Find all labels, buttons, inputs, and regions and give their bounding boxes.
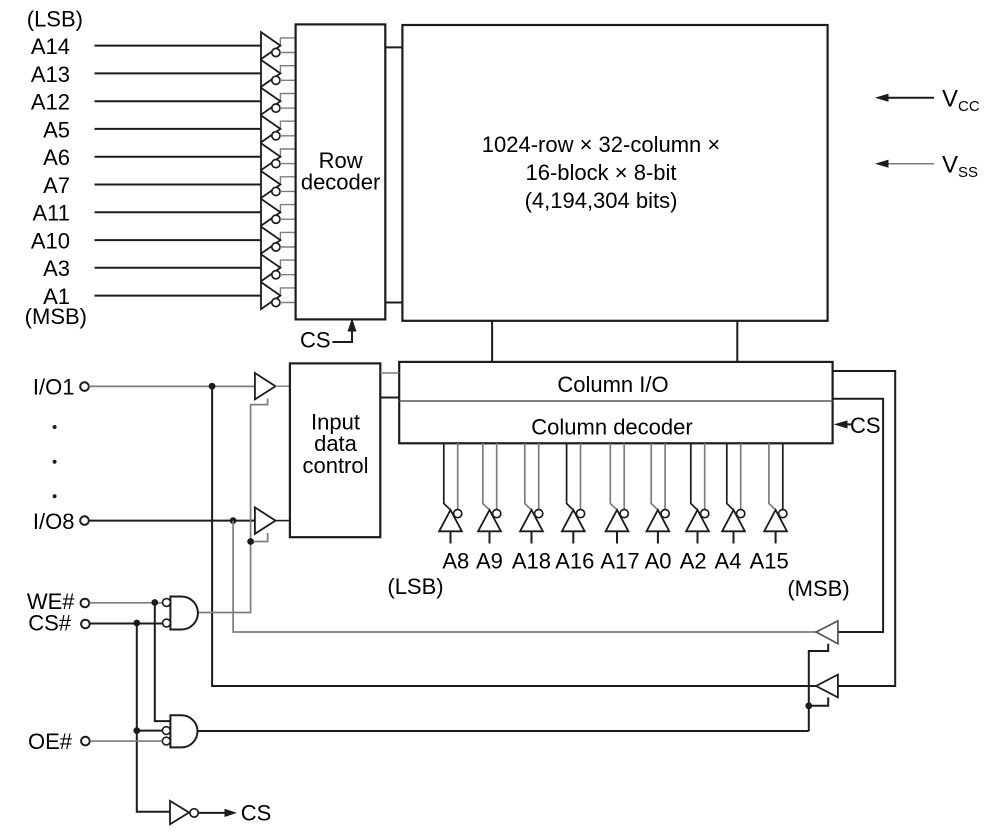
svg-text:CS#: CS# bbox=[28, 610, 72, 635]
input buffer I/O1 bbox=[255, 373, 276, 399]
address buffer A13 complement output wire bbox=[280, 79, 296, 81]
node OE# label bbox=[28, 729, 73, 754]
address buffer A1 complement output wire bbox=[280, 302, 296, 304]
wire input data control to column IO lower bbox=[380, 397, 399, 399]
address buffer A5 true output wire bbox=[280, 121, 295, 129]
node A16 label bbox=[555, 549, 594, 574]
block Column I/O and Column decoder bbox=[399, 362, 832, 443]
wire CS# riser bbox=[137, 623, 170, 812]
node A4 label bbox=[715, 549, 742, 574]
node A7 label bbox=[43, 173, 70, 198]
address buffer A7 true output wire bbox=[280, 177, 295, 185]
svg-text:A10: A10 bbox=[31, 229, 70, 254]
address buffer A10 true output wire bbox=[280, 232, 295, 240]
node A10 label bbox=[31, 229, 70, 254]
pin I/O1 terminal bbox=[80, 382, 89, 391]
wire I/O1 to input buffer bbox=[89, 385, 255, 387]
output buffer upper bbox=[816, 621, 838, 644]
svg-text:A13: A13 bbox=[31, 62, 70, 87]
node A5 label bbox=[43, 117, 70, 142]
svg-text:A5: A5 bbox=[43, 117, 70, 142]
pin I/O8 terminal bbox=[80, 516, 89, 525]
net label (LSB) bottom bbox=[387, 574, 443, 599]
net label CS row decoder bbox=[300, 327, 331, 352]
svg-text:CS: CS bbox=[241, 800, 272, 825]
svg-text:A12: A12 bbox=[31, 90, 70, 115]
svg-text:A11: A11 bbox=[32, 201, 70, 226]
wire column address A4 true line bbox=[727, 443, 733, 509]
wire CS# line bbox=[90, 623, 163, 625]
svg-text:CS: CS bbox=[300, 327, 331, 352]
net label (LSB) top bbox=[27, 7, 83, 32]
node A17 label bbox=[600, 549, 639, 574]
node A14 label bbox=[31, 34, 70, 59]
address buffer A6 complement output wire bbox=[280, 163, 296, 165]
wire column address A9 true line bbox=[483, 443, 489, 509]
power VSS label bbox=[942, 152, 978, 182]
wire column address A18 true line bbox=[525, 443, 531, 509]
address buffer A11 true output wire bbox=[280, 205, 295, 213]
block memory array bbox=[402, 25, 827, 321]
power VCC arrow bbox=[877, 94, 934, 101]
address buffer A5 complement output wire bbox=[280, 135, 296, 137]
wire A6 input line bbox=[95, 156, 262, 158]
address buffer A14 bbox=[261, 32, 280, 59]
svg-text:I/O8: I/O8 bbox=[33, 509, 75, 534]
svg-text:A2: A2 bbox=[680, 549, 707, 574]
wire CS to column decoder bbox=[836, 421, 852, 428]
pin CS# terminal bbox=[81, 620, 90, 629]
svg-text:(MSB): (MSB) bbox=[787, 576, 849, 601]
node I/O1 label bbox=[33, 375, 75, 400]
wire I/O8 to input buffer bbox=[89, 520, 255, 522]
svg-text:control: control bbox=[302, 453, 368, 478]
wire column address A18 complement line bbox=[538, 443, 540, 509]
junction WE# bbox=[151, 599, 158, 606]
svg-text:A6: A6 bbox=[43, 145, 70, 170]
wire A12 input line bbox=[95, 100, 262, 102]
wire A14 input line bbox=[95, 45, 262, 47]
wire array to column IO left bbox=[491, 321, 493, 362]
wire column address A16 complement line bbox=[580, 443, 582, 509]
address buffer A12 complement output wire bbox=[280, 107, 296, 109]
wire column IO to lower output buffer bbox=[833, 371, 896, 686]
wire column address A15 complement line bbox=[782, 443, 784, 509]
wire row decoder to array top bbox=[385, 46, 402, 48]
wire A5 input line bbox=[95, 128, 262, 130]
svg-text:A17: A17 bbox=[600, 549, 639, 574]
address buffer A6 bbox=[261, 143, 280, 170]
svg-text:1024-row × 32-column ×: 1024-row × 32-column × bbox=[482, 132, 720, 157]
svg-text:A3: A3 bbox=[43, 256, 70, 281]
junction CS# to U2 bbox=[133, 727, 140, 734]
wire output buffer enable riser bbox=[809, 644, 828, 731]
pin WE# terminal bbox=[81, 599, 90, 608]
wire OE# line bbox=[90, 740, 163, 742]
net label CS column decoder bbox=[850, 413, 881, 438]
node A9 label bbox=[476, 549, 503, 574]
ellipsis dots bbox=[53, 425, 57, 498]
wire CS output arrow bbox=[199, 810, 236, 817]
power VCC label bbox=[942, 86, 980, 116]
column address buffer A9 bbox=[478, 509, 501, 543]
column address buffer A15 bbox=[764, 509, 787, 543]
svg-text:A18: A18 bbox=[512, 549, 551, 574]
svg-text:Column I/O: Column I/O bbox=[557, 372, 668, 397]
address buffer A3 true output wire bbox=[280, 260, 295, 268]
wire A10 input line bbox=[95, 239, 262, 241]
svg-text:(LSB): (LSB) bbox=[387, 574, 443, 599]
wire column address A2 complement line bbox=[704, 443, 706, 509]
node CS# label bbox=[28, 610, 72, 635]
wire column address A17 true line bbox=[610, 443, 616, 509]
block Row decoder bbox=[296, 24, 386, 319]
node A3 label bbox=[43, 256, 70, 281]
address buffer A10 bbox=[261, 227, 280, 254]
svg-text:OE#: OE# bbox=[28, 729, 73, 754]
wire A7 input line bbox=[95, 184, 262, 186]
node A13 label bbox=[31, 62, 70, 87]
wire array to column IO right bbox=[736, 321, 738, 362]
wire WE# branch to U2 bbox=[155, 603, 171, 722]
wire column address A4 complement line bbox=[740, 443, 742, 509]
address buffer A12 bbox=[261, 88, 280, 115]
address buffer A7 complement output wire bbox=[280, 190, 296, 192]
svg-text:A15: A15 bbox=[750, 549, 789, 574]
node A8 label bbox=[442, 549, 469, 574]
wire column IO to upper output buffer bbox=[833, 399, 884, 632]
net label (MSB) bottom bbox=[787, 576, 849, 601]
net label CS bottom bbox=[241, 800, 272, 825]
address buffer A5 bbox=[261, 115, 280, 142]
node A15 label bbox=[750, 549, 789, 574]
wire A11 input line bbox=[95, 211, 262, 213]
wire column address A15 true line bbox=[769, 443, 775, 509]
svg-text:A0: A0 bbox=[645, 549, 672, 574]
column address buffer A18 bbox=[520, 509, 543, 543]
node A18 label bbox=[512, 549, 551, 574]
node A11 label bbox=[32, 201, 70, 226]
wire A1 input line bbox=[95, 295, 262, 297]
wire row decoder to array bottom bbox=[385, 302, 402, 304]
address buffer A11 complement output wire bbox=[280, 218, 296, 220]
svg-text:(LSB): (LSB) bbox=[27, 7, 83, 32]
svg-text:I/O1: I/O1 bbox=[33, 375, 75, 400]
wire column address A9 complement line bbox=[496, 443, 498, 509]
address buffer A6 true output wire bbox=[280, 149, 295, 157]
junction write enable I/O8 branch bbox=[247, 538, 254, 545]
node A0 label bbox=[645, 549, 672, 574]
net label (MSB) top bbox=[25, 304, 87, 329]
wire I/O1 output net bbox=[212, 386, 816, 686]
svg-text:Column decoder: Column decoder bbox=[531, 414, 692, 439]
pin OE# terminal bbox=[81, 737, 90, 746]
column address buffer A8 bbox=[439, 509, 462, 543]
svg-text:16-block × 8-bit: 16-block × 8-bit bbox=[525, 160, 676, 185]
wire WE# line bbox=[89, 602, 162, 604]
svg-text:decoder: decoder bbox=[301, 170, 381, 195]
wire A3 input line bbox=[95, 267, 262, 269]
power VSS arrow bbox=[877, 160, 934, 167]
wire column address A16 true line bbox=[567, 443, 573, 509]
node A12 label bbox=[31, 90, 70, 115]
wire column address A0 true line bbox=[651, 443, 657, 509]
address buffer A1 true output wire bbox=[280, 288, 295, 296]
wire column address A0 complement line bbox=[664, 443, 666, 509]
address buffer A3 complement output wire bbox=[280, 274, 296, 276]
junction CS# bbox=[133, 620, 140, 627]
node WE# label bbox=[27, 589, 75, 614]
node A6 label bbox=[43, 145, 70, 170]
svg-text:A9: A9 bbox=[476, 549, 503, 574]
wire I/O8 output net bbox=[233, 521, 816, 632]
address buffer A14 true output wire bbox=[280, 38, 295, 46]
wire column address A8 complement line bbox=[457, 443, 459, 509]
wire CS to row decoder bbox=[332, 320, 355, 342]
gate U1 WE/CS control bbox=[163, 597, 198, 630]
input buffer I/O8 bbox=[255, 507, 276, 533]
address buffer A12 true output wire bbox=[280, 94, 295, 102]
inverter CS buffer bbox=[170, 801, 198, 825]
wire U2 output enable net bbox=[198, 730, 809, 732]
svg-text:(MSB): (MSB) bbox=[25, 304, 87, 329]
address buffer A13 true output wire bbox=[280, 66, 295, 74]
node A1 label bbox=[43, 284, 70, 309]
wire A13 input line bbox=[95, 72, 262, 74]
svg-text:CS: CS bbox=[850, 413, 881, 438]
output buffer lower bbox=[816, 675, 838, 698]
address buffer A13 bbox=[261, 60, 280, 87]
wire input buffer I/O8 to block bbox=[276, 520, 290, 522]
address buffer A3 bbox=[261, 254, 280, 281]
block Input data control bbox=[290, 363, 380, 537]
column address buffer A16 bbox=[562, 509, 585, 543]
svg-text:A4: A4 bbox=[715, 549, 742, 574]
column address buffer A0 bbox=[647, 509, 670, 543]
wire CS# branch to U2 bbox=[137, 730, 163, 732]
junction I/O1 bbox=[209, 383, 216, 390]
address buffer A10 complement output wire bbox=[280, 246, 296, 248]
node A2 label bbox=[680, 549, 707, 574]
wire write enable net bbox=[198, 399, 268, 613]
svg-text:(4,194,304 bits): (4,194,304 bits) bbox=[525, 188, 678, 213]
column address buffer A2 bbox=[686, 509, 709, 543]
address buffer A11 bbox=[261, 199, 280, 226]
wire input data control to column IO upper bbox=[380, 372, 399, 374]
wire column address A8 true line bbox=[444, 443, 450, 509]
gate U2 output enable control bbox=[162, 715, 197, 747]
address buffer A7 bbox=[261, 171, 280, 198]
address buffer A1 bbox=[261, 282, 280, 309]
wire column address A2 true line bbox=[691, 443, 697, 509]
column address buffer A17 bbox=[606, 509, 629, 543]
wire column address A17 complement line bbox=[623, 443, 625, 509]
svg-text:A8: A8 bbox=[442, 549, 469, 574]
svg-text:A7: A7 bbox=[43, 173, 70, 198]
wire input buffer I/O1 to block bbox=[276, 385, 290, 387]
svg-text:A14: A14 bbox=[31, 34, 70, 59]
address buffer A14 complement output wire bbox=[280, 52, 296, 54]
junction I/O8 bbox=[230, 517, 237, 524]
svg-text:A16: A16 bbox=[555, 549, 594, 574]
column address buffer A4 bbox=[722, 509, 745, 543]
junction output buffer enables bbox=[805, 702, 812, 709]
node I/O8 label bbox=[33, 509, 75, 534]
